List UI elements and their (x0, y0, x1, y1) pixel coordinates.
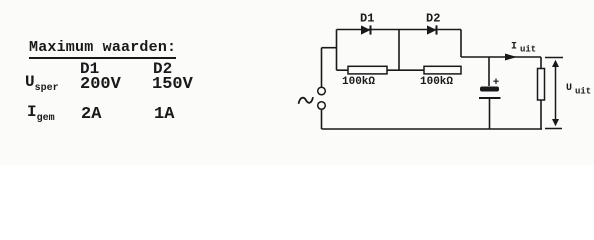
wire top rail (337, 29, 462, 31)
wire capacitor bottom lead (489, 98, 491, 129)
svg-text:100kΩ: 100kΩ (342, 76, 375, 88)
wire resistor row middle (387, 69, 424, 71)
wire right vertical (460, 30, 462, 58)
capacitor plus sign (493, 79, 498, 85)
diode D2 symbol (427, 25, 437, 34)
svg-text:uit: uit (575, 87, 591, 97)
resistor R2 100k (box) (424, 66, 461, 74)
svg-text:D1: D1 (360, 12, 374, 26)
label U_sper (25, 73, 59, 94)
table header D1 (80, 60, 99, 78)
svg-text:U: U (566, 83, 572, 94)
U_uit double arrow (552, 60, 559, 126)
svg-text:100kΩ: 100kΩ (420, 76, 453, 88)
wire resistor row left (337, 69, 349, 71)
capacitor C1 bottom plate (479, 97, 501, 99)
svg-text:uit: uit (520, 45, 536, 55)
wire load top (540, 57, 542, 69)
wire output rail (461, 56, 541, 58)
diode D1 symbol (361, 25, 371, 34)
wire bottom rail (322, 128, 543, 130)
terminal bottom (circle) (318, 102, 326, 110)
capacitor C1 top plate (filled, polarized) (480, 87, 499, 92)
wire source top vertical (321, 48, 323, 87)
wire load bottom (540, 100, 542, 129)
resistor R1 100k (box) (348, 66, 387, 74)
U_uit bottom tick (545, 128, 562, 130)
value 2A (81, 105, 101, 124)
value 1A (154, 105, 174, 124)
svg-text:D2: D2 (426, 12, 440, 26)
wire capacitor top lead (488, 57, 490, 86)
value 200V (80, 75, 121, 94)
table header D2 (153, 60, 172, 78)
wire source stub (322, 47, 337, 49)
AC symbol ~ (299, 97, 314, 104)
U_uit top tick (545, 57, 563, 59)
current arrow on output wire (505, 54, 517, 61)
load resistor RL (vertical box) (538, 69, 545, 101)
table title "Maximum waarden:" (29, 39, 176, 59)
label I_gem (27, 103, 55, 124)
wire middle vertical (node between D1 and D2) (398, 30, 400, 71)
terminal top (circle) (318, 87, 326, 95)
wire left vertical (336, 30, 338, 71)
value 150V (152, 75, 193, 94)
svg-text:I: I (511, 42, 517, 53)
wire source bottom vertical (321, 110, 323, 130)
